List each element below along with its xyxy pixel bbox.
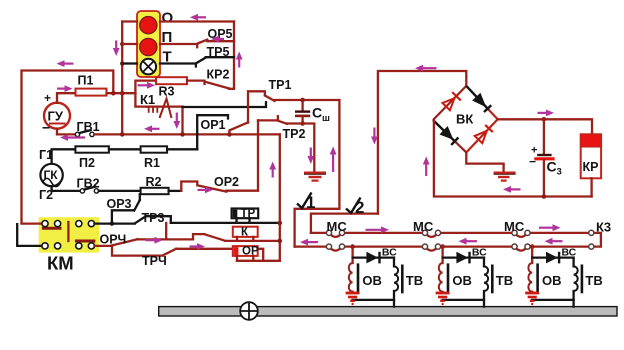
KM terminals (bottom row)	[42, 243, 95, 249]
winding TV2 (ТВ) secondary loop	[443, 258, 514, 300]
svg-text:ОВ: ОВ	[362, 273, 382, 288]
relay K (К) coil box	[233, 227, 258, 241]
arrow: lower rail left 1	[300, 239, 318, 246]
lamp T (Т) with cross	[141, 49, 172, 75]
wire: G1 terminal up to P2 line (black)	[52, 149, 76, 163]
arrow: collector up	[236, 52, 243, 68]
svg-text:МС: МС	[504, 219, 525, 234]
svg-text:ГК: ГК	[44, 168, 59, 182]
wire: black branch to TR1 back contact	[183, 102, 267, 107]
wire: lamp O left stub	[122, 20, 137, 22]
wire: R3 to KR2 contact	[187, 81, 205, 84]
arrow: DC minus left	[503, 186, 521, 193]
wire: transformer 3 primary drop	[531, 247, 533, 263]
relay KR (КР) track relay box	[581, 134, 601, 178]
svg-text:КР: КР	[583, 160, 599, 174]
svg-text:ТР3: ТР3	[142, 211, 165, 225]
wire: K1 corner down to GV1 line	[181, 107, 183, 135]
wire: top-left supply loop	[22, 71, 114, 224]
svg-text:С: С	[547, 159, 557, 175]
commutator KM (КМ) yellow block	[39, 217, 100, 273]
node: K1 corner joins GV1 line	[180, 132, 185, 137]
wire: line-2 break to upper rail	[311, 214, 378, 233]
contact KR2 (КР2)	[205, 68, 234, 89]
wire: transformer 1 primary drop	[351, 247, 353, 263]
wire: upper line rail	[311, 232, 591, 234]
contact OR1 (ОР1) fixed bracket black	[197, 115, 228, 149]
wire: secondary corner drop to track bar	[483, 300, 485, 307]
arrow: top loop left	[57, 60, 74, 67]
wire: relay line to big vertical (black)	[171, 222, 280, 224]
wire: KR bottom leg	[590, 178, 592, 196]
wire: OR1 blade up to TR1	[248, 91, 265, 122]
signal head (traffic light)	[137, 11, 160, 77]
svg-text:ОВ: ОВ	[542, 273, 562, 288]
node: junction P1-line / top loop	[111, 91, 116, 96]
contact TR5 (ТР5) black	[196, 45, 234, 63]
contact on K-coil line (second blade)	[193, 234, 225, 241]
diode VS3 (ВС)	[532, 247, 576, 264]
arrow: K1 down	[173, 113, 180, 130]
winding OV1 (ОВ) primary coil	[349, 263, 382, 292]
capacitor Csh (Сш)	[295, 100, 330, 124]
contact TR1 (ТР1)	[265, 78, 292, 101]
wire: supply loop into KM top-left terminal	[22, 222, 42, 224]
arrow: upper rail right 1	[366, 226, 390, 233]
arrow: feeder up mid	[269, 162, 276, 178]
wire: secondary corner drop to track bar	[572, 300, 574, 307]
wire: lamp P right wire	[160, 44, 197, 47]
arrow: lower rail left 3	[545, 238, 563, 245]
wire: R1 to OR1 bracket riser	[167, 148, 197, 150]
wire: transformer 2 below coil to ground	[441, 291, 443, 294]
wire: AC feeder up to rectifier top	[378, 71, 466, 214]
inductor MS3 lower	[512, 244, 530, 251]
wire: right collector vertical of lamp contacts	[233, 22, 235, 89]
contact OR2 (ОР2)	[181, 175, 239, 192]
svg-text:К1: К1	[140, 92, 155, 107]
contact TR2 (ТР2)	[258, 116, 305, 141]
arrow: upper rail right 2	[539, 224, 561, 231]
arrow: ORCh right	[146, 237, 163, 244]
inductor MS1 lower	[326, 244, 344, 251]
wire: lamp O right wire to collector	[160, 20, 234, 22]
wire: bridge bottom corner to ground	[466, 152, 503, 172]
wire: Csh top node to line-1 break	[295, 100, 340, 247]
svg-text:П2: П2	[79, 156, 95, 170]
svg-text:−: −	[529, 155, 536, 169]
wire: transformer 3 below coil to ground	[531, 291, 533, 294]
svg-text:+: +	[44, 91, 51, 105]
node: black relay line joins big vertical	[278, 221, 283, 226]
wire: GV1 line to big right vertical	[94, 133, 280, 135]
relay TR (ТР) coil box	[232, 208, 259, 223]
node: OR1 blade joins GV1 line	[227, 132, 232, 137]
arrow: into R3	[138, 82, 156, 89]
wire: big vertical feeder (GV1 line down to relay coils)	[279, 134, 281, 260]
arrow: lamp bus down	[113, 41, 120, 57]
svg-text:К: К	[241, 227, 249, 239]
svg-text:К3: К3	[596, 220, 611, 235]
svg-text:С: С	[312, 105, 322, 121]
wire: lamp T left stub (black)	[124, 62, 137, 64]
wire: TR2 feed vertical down to OR2	[227, 120, 259, 190]
wire: bridge left corner down and along bottom to KR	[434, 121, 592, 197]
wire: K coil line	[225, 240, 280, 242]
wire: lamp P left stub	[122, 43, 137, 45]
wire: P2 to R1	[109, 148, 141, 150]
svg-text:ОВ: ОВ	[452, 273, 472, 288]
resistor R3	[156, 77, 187, 98]
inductor MS2 lower	[422, 244, 440, 251]
winding TV1 (ТВ) secondary loop	[353, 258, 424, 300]
wire: R2 to OR2 step	[169, 190, 182, 192]
resistor R2 black	[141, 175, 169, 194]
node: OR3 bracket on relay line	[110, 221, 114, 225]
arrow: TRCh right	[190, 243, 206, 250]
inductor MS2 upper (МС)	[413, 219, 441, 237]
rail: grounded track bar	[159, 307, 617, 316]
break mark 2 (line 2)	[346, 198, 364, 218]
wire: GV2 to R2	[99, 190, 141, 192]
arrow: GV1 left	[60, 134, 85, 141]
wire: GU minus terminal down to GV1 line	[56, 129, 58, 135]
svg-text:О: О	[162, 10, 174, 27]
ground: Csh shunt ground	[304, 173, 326, 181]
inductor MS1 upper (МС)	[326, 219, 347, 237]
bond symbol on track bar	[240, 302, 258, 320]
wire: KM bottom-right terminal to ORCh (ОРЧ)	[95, 245, 113, 247]
contact K1 (К1) with ticks and break arrow	[140, 92, 183, 118]
arrow: line1 up	[330, 147, 337, 173]
svg-text:ТР5: ТР5	[207, 45, 230, 59]
rectifier bridge edge bottom-left with black diode	[433, 120, 466, 152]
svg-text:3: 3	[557, 167, 562, 178]
wire: OR coil line	[237, 260, 280, 262]
arrow: OR5 current	[211, 36, 224, 43]
node: transformer 1 tap on lower rail	[350, 244, 355, 249]
rectifier bridge edge bottom-right with red diode	[456, 112, 498, 153]
diode VS2 (ВС)	[443, 247, 487, 264]
wire: P1 to R3/K1 junction	[107, 92, 136, 94]
arrow: bridge left up	[423, 157, 430, 177]
svg-text:ТР: ТР	[241, 208, 256, 220]
svg-text:ОР3: ОР3	[107, 197, 132, 211]
winding TV3 (ТВ) secondary loop	[532, 258, 603, 300]
svg-text:ОР2: ОР2	[214, 175, 239, 189]
svg-text:R1: R1	[144, 156, 160, 170]
generator GK (ГК)	[39, 148, 63, 202]
contact GV1 (ГВ1) on GU minus line	[57, 120, 100, 137]
node: Csh bottom / TR2 junction	[300, 121, 305, 126]
resistor P2 (П2) black	[75, 146, 109, 170]
svg-text:ТР2: ТР2	[283, 127, 306, 141]
svg-text:ТВ: ТВ	[496, 273, 513, 288]
node K3 (К3) end-of-line terminals and jumper	[589, 220, 611, 250]
svg-text:1: 1	[306, 193, 315, 212]
node: transformer 2 tap on lower rail	[440, 244, 445, 249]
node: junction P1-line / lamp bus	[120, 91, 125, 96]
svg-text:МС: МС	[413, 219, 434, 234]
node: lamp bus / T stub	[120, 61, 124, 65]
node: C3 bottom junction	[542, 194, 547, 199]
wire: Csh ground jog	[303, 124, 315, 172]
svg-text:ОРЧ: ОРЧ	[100, 233, 127, 247]
wire: K1 branch down from R3 riser	[135, 93, 147, 106]
contact GV2 (ГВ2) black	[77, 177, 100, 194]
node: lamp bus / P stub	[120, 42, 124, 46]
svg-text:2: 2	[355, 198, 364, 217]
svg-text:ш: ш	[322, 113, 330, 124]
lamp O (О) red	[140, 10, 174, 34]
wire: riser to R3	[135, 81, 156, 94]
svg-text:R2: R2	[146, 175, 162, 189]
svg-text:ТР1: ТР1	[269, 78, 292, 92]
contact OR5 (ОР5)	[197, 27, 234, 44]
contact ORCh (ОРЧ)	[100, 233, 194, 247]
contact OR3 (ОР3) black bracket and blade	[107, 194, 140, 223]
wire: black return into KM bottom-left terminal	[17, 224, 41, 246]
contact TR3 (ТР3) black	[135, 211, 171, 225]
arrow: AC top left	[415, 65, 437, 72]
contact OR1 blade (red) and riser	[229, 122, 248, 134]
svg-text:ОР1: ОР1	[201, 118, 226, 132]
node: transformer 3 tap on lower rail	[530, 244, 535, 249]
wire: lower line rail	[295, 245, 591, 247]
arrow: K1 left	[144, 125, 160, 132]
arrow: lower rail left 2	[459, 238, 478, 245]
winding OV2 (ОВ) primary coil	[439, 263, 472, 292]
relay OR (ОР) coil box	[233, 245, 259, 260]
wire: lamp T right wire (black)	[160, 64, 196, 67]
generator GU (ГУ)	[42, 91, 70, 136]
arrow: Csh ground down	[307, 148, 314, 165]
winding OV3 (ОВ) primary coil	[528, 263, 561, 292]
wire: bridge right corner (plus) to KR top	[498, 119, 592, 134]
ground: transformer 2 earth on track bar	[436, 293, 450, 304]
KM terminals (top row)	[42, 221, 95, 227]
rectifier bridge edge top-right with black diode	[466, 86, 497, 119]
svg-text:КР2: КР2	[207, 68, 230, 82]
node: Csh top junction	[300, 98, 305, 103]
svg-text:П1: П1	[78, 74, 94, 88]
node: lamp bus joins GV1 line	[120, 132, 125, 137]
arrow: DC plus right	[538, 110, 555, 117]
arrow: lamp O current	[190, 14, 206, 21]
ground: transformer 1 earth on track bar	[346, 293, 360, 304]
inductor MS3 upper (МС)	[504, 219, 530, 237]
arrow: into P1	[57, 85, 73, 92]
ground: rectifier minus ground	[494, 173, 516, 181]
node: C3 top junction	[542, 117, 547, 122]
svg-text:ГВ1: ГВ1	[77, 120, 100, 134]
svg-text:ТВ: ТВ	[585, 273, 602, 288]
lamp P (П) red	[140, 29, 173, 56]
wire: TR1 to Csh top node	[275, 99, 340, 101]
svg-text:−: −	[42, 120, 50, 136]
node: K coil line joins big vertical	[278, 239, 283, 244]
diode VS1 (ВС)	[353, 247, 397, 264]
wire: GU plus terminal to P1 line	[57, 93, 76, 103]
svg-text:КМ: КМ	[47, 253, 74, 274]
wire: transformer 2 primary drop	[441, 247, 443, 263]
arrow: line2 down	[371, 128, 378, 145]
resistor P1 (П1)	[76, 74, 107, 96]
arrow: OR2 right	[198, 187, 214, 194]
svg-text:ОР: ОР	[242, 245, 259, 257]
wire: KM top-right terminal to relay line (black)	[95, 222, 135, 224]
wire: transformer 1 below coil to ground	[351, 291, 353, 294]
break mark 1 (line 1)	[297, 193, 315, 213]
wire: G2 terminal to GV2 (black)	[52, 186, 81, 191]
svg-text:ТВ: ТВ	[406, 273, 423, 288]
wire: lamp bus vertical	[121, 22, 123, 135]
ground: transformer 3 earth on track bar	[525, 293, 539, 304]
rectifier bridge VK (ВК) edge top-left with red diode	[433, 86, 466, 120]
svg-text:ВК: ВК	[456, 112, 473, 127]
resistor R1 black	[141, 146, 168, 170]
svg-text:ГВ2: ГВ2	[77, 177, 100, 191]
svg-text:МС: МС	[327, 219, 348, 234]
wire: secondary corner drop to track bar	[393, 300, 395, 307]
KM internal bridge bars	[42, 222, 96, 241]
capacitor C3 (С3) electrolytic	[529, 119, 562, 196]
wire: link from relay line down to K-coil line	[165, 223, 167, 239]
contact TRCh (ТРЧ) branch	[112, 246, 263, 268]
svg-text:ТРЧ: ТРЧ	[142, 254, 167, 268]
